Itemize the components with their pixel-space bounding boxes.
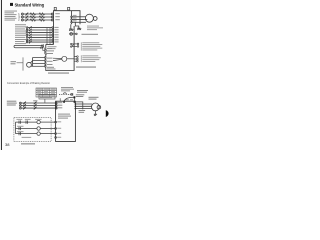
terminal labels R/L1 S/L2 T/L3 (55, 13, 60, 20)
digital input wire S5 (26, 36, 53, 39)
motor output terminals U/V/W (71, 11, 73, 25)
bottom wire T (20, 107, 56, 109)
B1/B2 jumper on box top (54, 7, 69, 10)
label bracket (18, 14, 20, 21)
bottom motor wires (75, 104, 92, 109)
bottom terminal labels (58, 102, 63, 108)
braking resistor note text (76, 90, 88, 97)
inner text inside bottom box (58, 114, 71, 119)
B2 terminal (74, 101, 76, 103)
MC contact label (33, 100, 37, 101)
svg-text:Standard Wiring: Standard Wiring (15, 2, 45, 7)
bottom input terminals (55, 102, 57, 109)
internal relay changeover contact (71, 43, 74, 47)
input terminals R/L1 S/L2 T/L3 (51, 13, 53, 21)
motor IM (85, 14, 97, 22)
sequence circuit dashed box (14, 118, 51, 142)
power supply labels (bottom) (7, 101, 17, 106)
relay output terminals (77, 43, 79, 47)
thermal relay note text (61, 87, 74, 91)
title: Standard Wiring (10, 2, 45, 7)
B1 terminal (63, 101, 65, 103)
sequence row 1 labels (17, 118, 42, 121)
thermal relay symbol on dashed wire (59, 93, 73, 95)
inverter ground terminal (69, 24, 73, 31)
digital input wire S1 (26, 26, 53, 29)
inverter box (top diagram) (46, 11, 80, 71)
label leader line (17, 57, 24, 70)
sequence row 3 label (17, 130, 23, 133)
sequence row 3 wire: relay contact + coil (16, 132, 52, 135)
page spine line (0, 0, 2, 150)
svg-text:38: 38 (5, 142, 10, 147)
note line 400V (82, 34, 99, 35)
shield drop wires to FR FC terminals (43, 46, 47, 54)
analog text bracket (80, 55, 82, 62)
B1 B2 labels (66, 98, 73, 101)
note line under outputs (76, 67, 96, 68)
digital input wire S3 (26, 31, 53, 34)
relay text bracket (80, 42, 82, 50)
control terminal circles on bottom box (55, 121, 57, 138)
wire T phase (22, 19, 54, 21)
bottom motor ground (94, 111, 97, 116)
arc wire B1 to resistor (64, 97, 74, 101)
potentiometer (circle) (27, 58, 33, 68)
bottom MCCB (23, 102, 26, 110)
digital input wire S4 (26, 34, 53, 37)
braking resistor block (74, 96, 76, 98)
table cell text (37, 89, 56, 90)
control terminal labels (57, 121, 61, 137)
resistor selection table (36, 88, 57, 97)
sequence rails (15, 122, 17, 134)
bottom wire S (20, 105, 56, 107)
label block: 3-phase power supply (5, 11, 18, 21)
sequence row 1 wire: OFF ON MC coil (16, 120, 52, 123)
U/T1 V/T2 W/T3 terminal labels (73, 15, 77, 21)
table body cell text (37, 91, 55, 96)
wire R phase (22, 13, 54, 15)
bottom motor terminals (75, 103, 77, 109)
bottom wire R (20, 102, 56, 104)
page number 38 (5, 142, 10, 147)
caption under box (48, 73, 69, 74)
breaker MCCB (26, 13, 29, 22)
digital input wire S2 (26, 29, 53, 32)
ground note text (87, 26, 103, 31)
braking resistor label with leader (75, 102, 82, 110)
motor wires U V W (72, 17, 87, 23)
digital input wire S7/SC (26, 41, 53, 44)
motor label (89, 97, 99, 100)
MCCB note box (39, 95, 55, 103)
potentiometer label text (11, 61, 17, 64)
fan component (69, 33, 77, 36)
analog input wires (33, 57, 46, 67)
wires from sequence box to inverter terminals (51, 122, 56, 134)
paper background (0, 0, 131, 150)
motor ground (75, 22, 81, 30)
sequence row 2 label (17, 125, 23, 128)
subtitle: Connection Example of Braking Resistor (7, 82, 50, 85)
analog monitor wires (74, 57, 77, 62)
common bus wires (47, 28, 50, 45)
input signal name labels (15, 24, 27, 44)
scan artifact blob (106, 110, 109, 117)
analog terminal labels inside box (47, 48, 56, 69)
analog monitor text block (82, 55, 101, 62)
digital input wire S6 (26, 39, 53, 42)
digital input terminal labels (54, 27, 58, 43)
scan softening wrapper (1, 0, 108, 150)
sequence caption (21, 143, 35, 144)
shielded cable oval (14, 44, 44, 48)
bottom MC contacts (34, 102, 37, 110)
analog monitor terminal circle A (77, 56, 79, 62)
bottom motor (92, 103, 101, 111)
sequence inner bottom label (22, 136, 32, 139)
wire S phase (22, 16, 54, 18)
inverter box (bottom diagram) (56, 101, 76, 141)
leader tick into bottom box top (59, 98, 61, 101)
sequence row 2 wire: MC aux contact + coil (16, 127, 52, 130)
braking resistor label text (79, 110, 86, 113)
relay contact text block (82, 42, 102, 50)
svg-text:Connection Example of Braking: Connection Example of Braking Resistor (7, 82, 50, 85)
MCCB / thermal zigzag symbols (30, 13, 45, 21)
analog amp circle (53, 56, 74, 61)
control section inner labels (48, 46, 57, 49)
relay output wires (72, 44, 77, 47)
